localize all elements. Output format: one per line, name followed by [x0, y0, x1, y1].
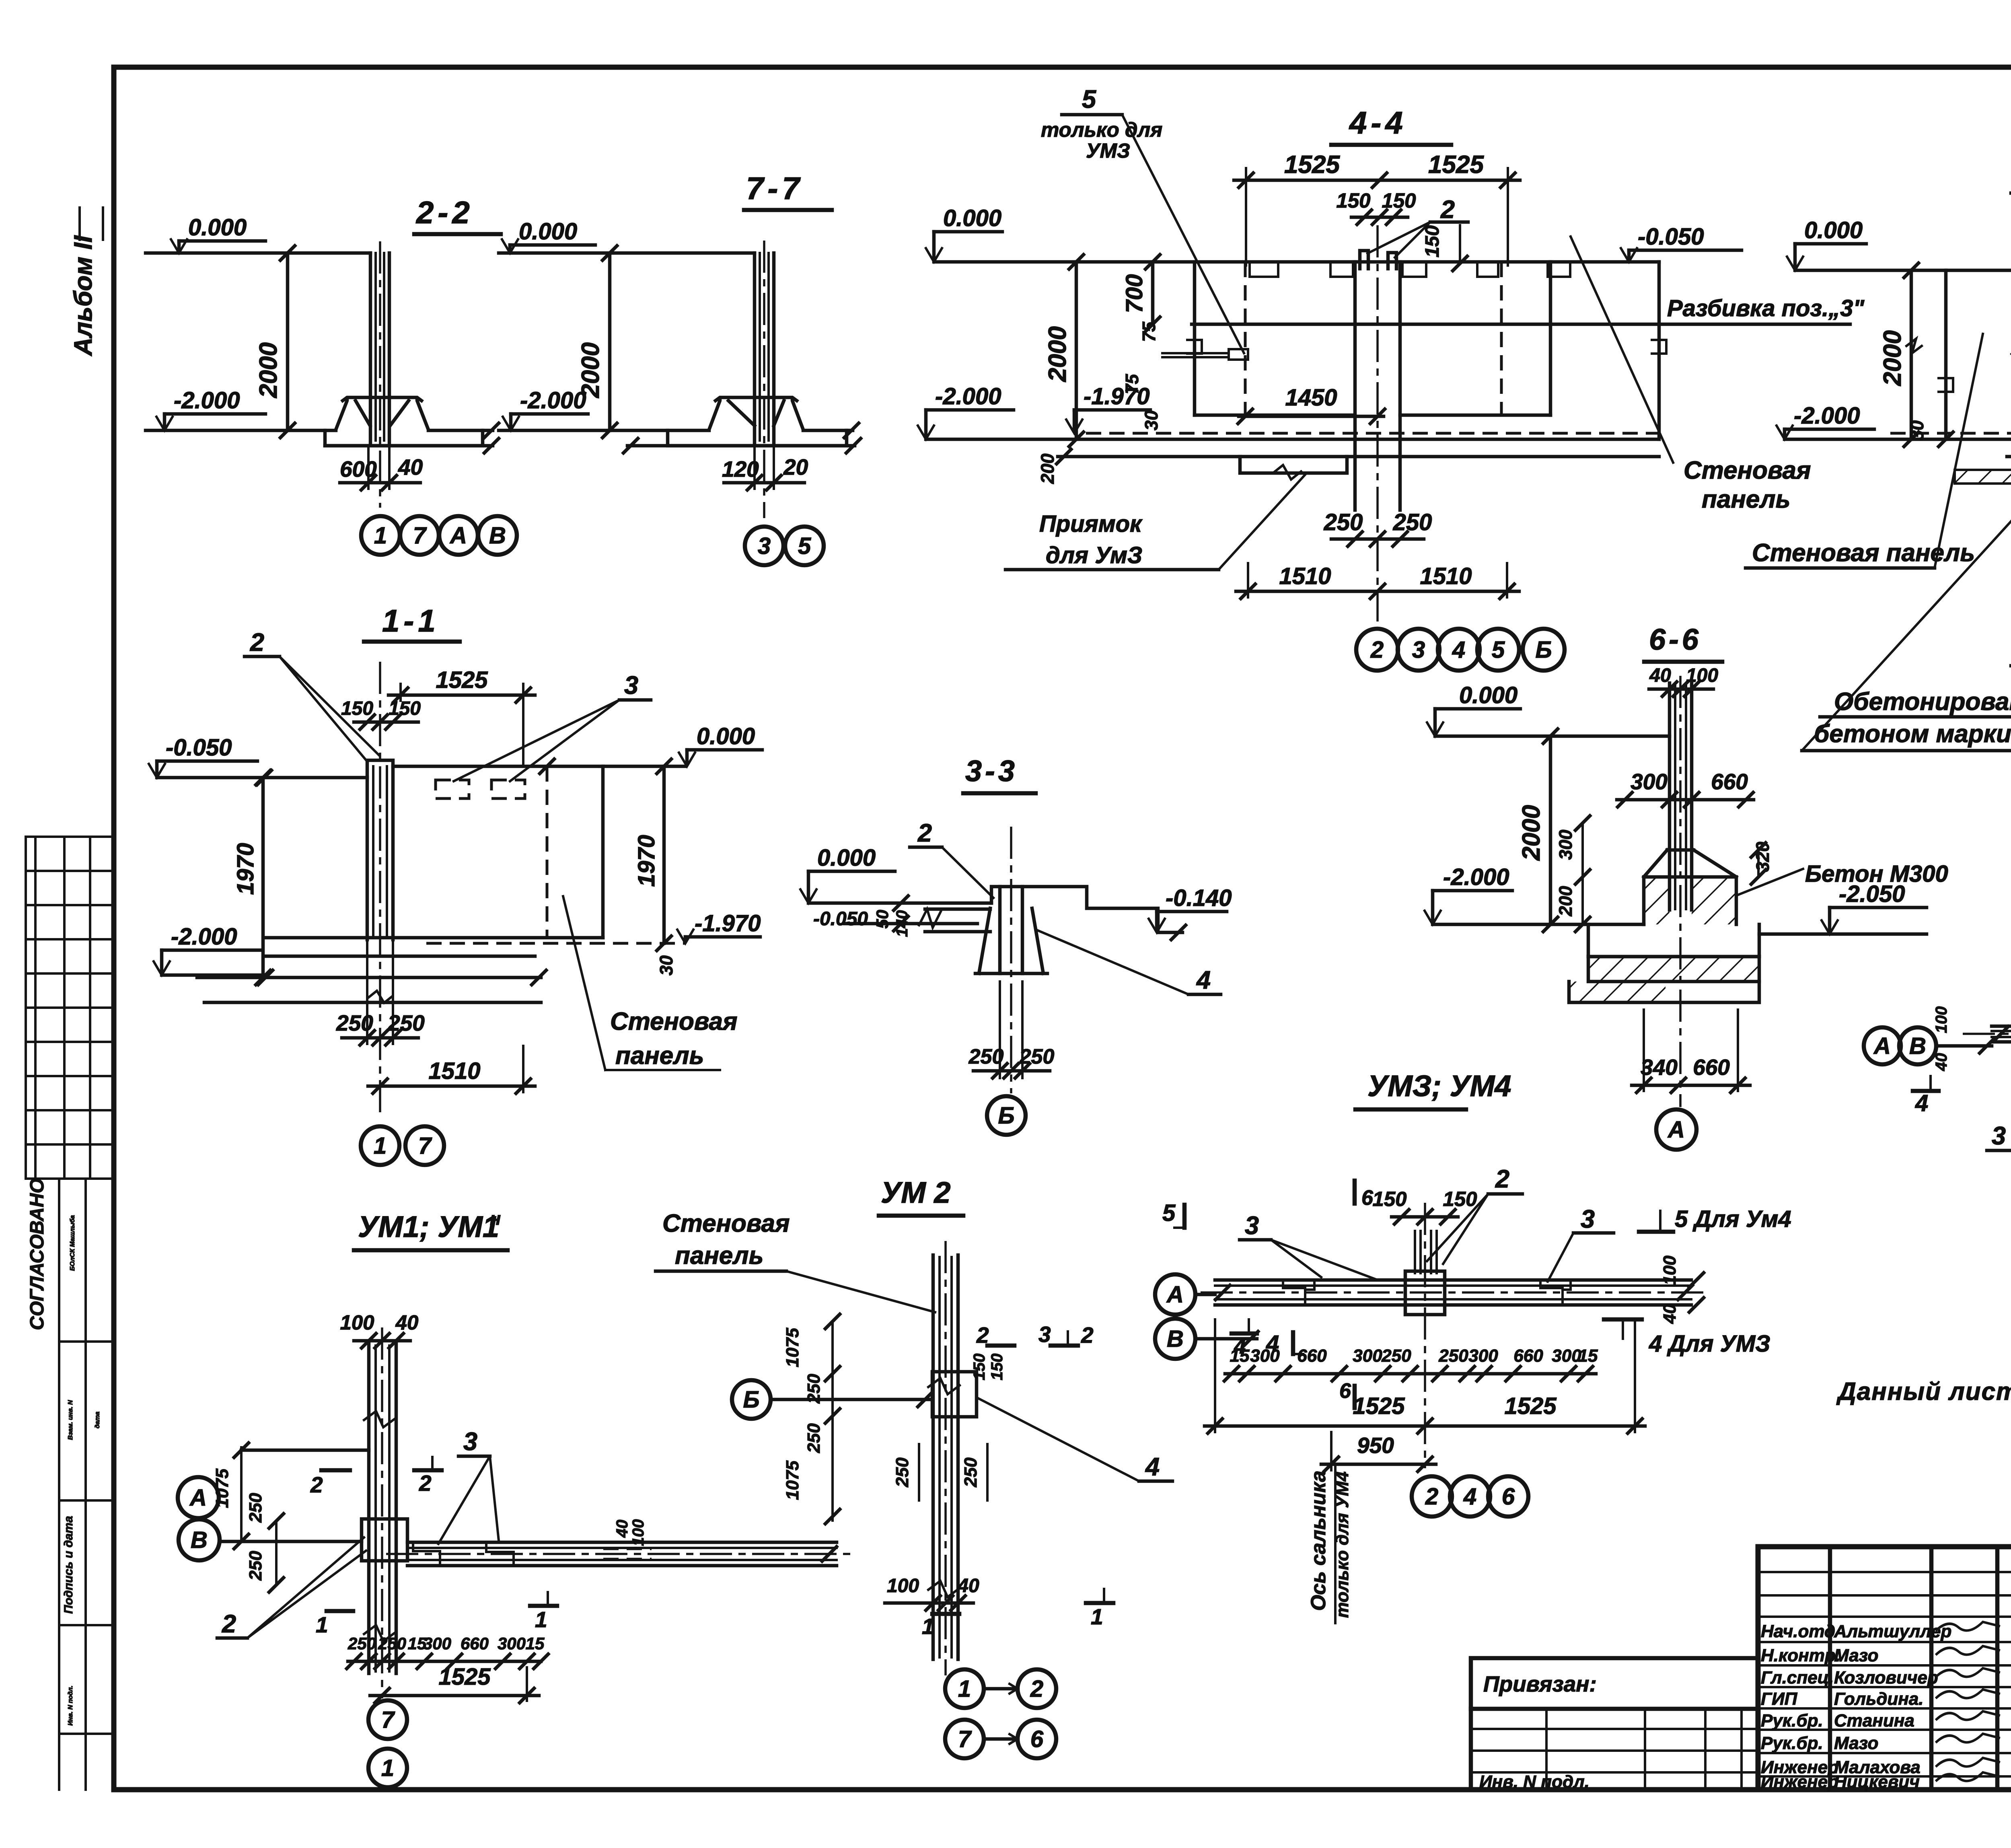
- section 1-1 dim 1510: [368, 1046, 535, 1093]
- svg-text:100: 100: [887, 1575, 919, 1597]
- svg-text:150: 150: [988, 1354, 1006, 1381]
- section 5-5 wall panel label: [1746, 334, 1983, 568]
- section 4-4 panel bottom: [1195, 414, 1550, 417]
- plan UM3 label 2: [1427, 1165, 1522, 1264]
- plan UM2 link bubbles 1 2: [945, 1669, 1056, 1708]
- section 1-1 label 3: [454, 671, 651, 781]
- svg-text:В: В: [1909, 1033, 1926, 1059]
- section 6-6 elevation -2.000: [1425, 864, 1512, 924]
- section 4-4 dim 2000: [1044, 262, 1084, 447]
- svg-text:н: н: [490, 1208, 501, 1229]
- section 7-7 title: [744, 171, 832, 210]
- svg-text:Инв. N подл.: Инв. N подл.: [67, 1685, 74, 1726]
- section 1-1 grid bubbles 1 7: [361, 1126, 444, 1165]
- svg-text:100: 100: [1933, 1006, 1950, 1033]
- svg-text:2000: 2000: [1879, 330, 1906, 386]
- svg-text:5: 5: [1492, 637, 1505, 663]
- svg-text:40: 40: [613, 1520, 631, 1538]
- svg-text:250: 250: [246, 1493, 265, 1523]
- section 5-5 left panel: [1939, 270, 2011, 439]
- section 1-1 dim 1970 left: [232, 770, 270, 985]
- svg-text:Привязан:: Привязан:: [1483, 1671, 1597, 1696]
- section 4-4 right panel: [1501, 262, 1666, 439]
- plan UM3 grid bubbles 2 4 6: [1412, 1476, 1528, 1517]
- svg-text:700: 700: [1121, 274, 1147, 313]
- plan UM5 bubbles A B left: [1864, 1027, 1994, 1064]
- section 4-4 joint walls: [1355, 262, 1400, 510]
- svg-text:40: 40: [1660, 1304, 1680, 1324]
- svg-text:2: 2: [917, 819, 932, 847]
- svg-text:250: 250: [961, 1457, 981, 1488]
- svg-text:140: 140: [893, 910, 911, 937]
- svg-text:75: 75: [1139, 321, 1159, 342]
- section 3-3 step profile: [991, 887, 1186, 940]
- plan UM3 center block: [1405, 1271, 1445, 1315]
- section 4-4 centerline: [1376, 225, 1379, 621]
- svg-text:250: 250: [378, 1634, 406, 1653]
- section 2-2 foundation socket: [336, 397, 428, 430]
- section 6-6 level line: [1433, 923, 1644, 926]
- svg-text:0.000: 0.000: [188, 214, 247, 241]
- svg-text:2: 2: [222, 1610, 236, 1638]
- section 6-6 grid bubble A: [1656, 1109, 1696, 1150]
- svg-text:30: 30: [1907, 420, 1927, 440]
- section 6-6 dim 2000: [1518, 736, 1558, 932]
- plan UM1 bubbles A B: [178, 1477, 362, 1560]
- plan UM1 left dims: [212, 1443, 369, 1592]
- svg-text:250: 250: [348, 1634, 376, 1653]
- section 1-1 elevation -2.000: [154, 924, 263, 975]
- svg-text:7-7: 7-7: [746, 171, 804, 206]
- section 4-4 note 5 only for UM3: [1041, 85, 1244, 353]
- plan UM1 arm centerline: [386, 1553, 855, 1555]
- section 1-1 dim 1525: [389, 667, 535, 766]
- svg-text:-0.140: -0.140: [1166, 885, 1232, 911]
- svg-text:0.000: 0.000: [1459, 682, 1518, 708]
- svg-text:4: 4: [1234, 1335, 1246, 1358]
- section 6-6 dim 300 660: [1617, 769, 1754, 807]
- svg-text:3: 3: [758, 533, 771, 559]
- svg-text:150: 150: [1422, 225, 1443, 257]
- plan UM2 cut marks bottom: [922, 1589, 1113, 1639]
- svg-text:Б: Б: [1535, 637, 1552, 663]
- section 5-5 floor slab: [1785, 420, 2011, 457]
- svg-text:Мазо: Мазо: [1834, 1646, 1878, 1665]
- svg-text:40: 40: [395, 1311, 419, 1334]
- plan UM5 wall strip: [1992, 1026, 2011, 1042]
- svg-text:150: 150: [1336, 189, 1370, 212]
- svg-text:-2.000: -2.000: [935, 383, 1001, 410]
- svg-text:Приямок: Приямок: [1039, 511, 1143, 537]
- svg-text:250: 250: [1393, 509, 1432, 535]
- svg-text:250: 250: [968, 1045, 1004, 1068]
- plan UM1 bottom dim row: [347, 1634, 548, 1669]
- plan UM1 label 2 leader: [217, 1537, 366, 1638]
- svg-text:1: 1: [958, 1676, 971, 1702]
- svg-text:УМ1; УМ1: УМ1; УМ1: [358, 1210, 499, 1243]
- section 4-4 dim 150 vertical: [1422, 225, 1467, 271]
- section 1-1 thirty mark: [656, 955, 677, 975]
- svg-text:3: 3: [463, 1428, 477, 1456]
- svg-text:250: 250: [1438, 1346, 1468, 1366]
- section 4-4 dim 1450: [1238, 385, 1385, 424]
- svg-text:В: В: [1167, 1326, 1184, 1352]
- plan UM3 note 4 for UM3: [1604, 1319, 1770, 1357]
- svg-text:УМ 2: УМ 2: [881, 1176, 950, 1209]
- svg-text:660: 660: [1711, 769, 1748, 794]
- plan UM1 title: [354, 1208, 508, 1250]
- plan UM1 wall strip vertical: [364, 1344, 396, 1673]
- svg-text:Подпись и дата: Подпись и дата: [62, 1516, 75, 1613]
- svg-text:-0.050: -0.050: [166, 735, 232, 761]
- svg-text:-2.000: -2.000: [1794, 403, 1860, 429]
- section 1-1 dim 150 150: [341, 698, 421, 729]
- section 3-3 column boot: [975, 887, 1047, 973]
- svg-text:А: А: [449, 523, 467, 549]
- svg-text:Взам. инв. N: Взам. инв. N: [67, 1400, 74, 1440]
- note about sheets: [1836, 1378, 2011, 1406]
- svg-text:950: 950: [1357, 1433, 1394, 1458]
- title block: [1758, 1547, 2011, 1790]
- svg-text:Альтшуллер: Альтшуллер: [1834, 1622, 1951, 1641]
- plan UM3 bubbles A B: [1155, 1274, 1258, 1359]
- section 3-3 label 4: [1037, 930, 1221, 994]
- section 6-6 dims 300 200 left: [1555, 816, 1590, 932]
- svg-text:250: 250: [387, 1010, 425, 1035]
- section 3-3 label 2: [910, 819, 993, 898]
- plan UM3 rebar pins: [1415, 1231, 1437, 1273]
- svg-text:300: 300: [1555, 829, 1576, 860]
- svg-text:3: 3: [624, 671, 638, 700]
- section 3-3 left floor arm: [893, 909, 990, 937]
- plan UM1 arm joints: [413, 1542, 652, 1566]
- plan UM2 cut marks top: [976, 1322, 1094, 1348]
- plan UM2 bubble B: [732, 1380, 932, 1419]
- plan UM2 left dims: [783, 1314, 840, 1524]
- svg-text:6: 6: [1502, 1484, 1515, 1510]
- section 6-6 dim 320: [1751, 842, 1773, 884]
- svg-text:Гольдина.: Гольдина.: [1834, 1689, 1924, 1709]
- section 3-3 grid bubble B: [987, 1096, 1026, 1135]
- plan UM3 cut marks 6: [1339, 1181, 1374, 1408]
- svg-text:В: В: [191, 1527, 208, 1553]
- section 2-2 dim 2000: [255, 253, 295, 438]
- svg-text:150: 150: [1372, 1187, 1406, 1210]
- plan UM2 dims 150 150: [971, 1354, 1006, 1381]
- plan UM1 cut marks 2: [310, 1457, 442, 1497]
- svg-text:2: 2: [419, 1471, 432, 1496]
- svg-text:Ницкевич: Ницкевич: [1834, 1772, 1920, 1792]
- svg-text:2000: 2000: [1044, 326, 1071, 382]
- svg-text:0.000: 0.000: [519, 218, 577, 245]
- svg-text:1075: 1075: [212, 1469, 232, 1508]
- section 4-4 title: [1331, 105, 1451, 145]
- section 7-7 grid bubbles 3 5: [745, 527, 824, 565]
- svg-text:Стеновая: Стеновая: [662, 1210, 790, 1237]
- section 5-5 elevation 0.000: [1787, 217, 1866, 270]
- svg-text:0.000: 0.000: [697, 723, 755, 749]
- section 7-7 dim 2000: [577, 253, 617, 438]
- svg-text:1: 1: [374, 523, 387, 549]
- svg-text:Н.контр.: Н.контр.: [1761, 1646, 1840, 1665]
- section 4-4 hidden level line: [1086, 432, 1659, 435]
- plan UM3 cut mark 4: [1266, 1331, 1303, 1357]
- section 4-4 dim 700: [1121, 262, 1160, 331]
- svg-text:1510: 1510: [428, 1058, 480, 1084]
- svg-text:20: 20: [783, 455, 808, 479]
- svg-text:Мазо: Мазо: [1834, 1733, 1878, 1753]
- svg-text:4-4: 4-4: [1349, 105, 1407, 140]
- svg-text:150: 150: [341, 698, 373, 719]
- section 4-4 dim 150 150: [1336, 189, 1416, 224]
- section 7-7 ground line: [499, 246, 755, 260]
- svg-text:120: 120: [722, 457, 759, 482]
- svg-text:2-2: 2-2: [415, 195, 474, 230]
- section 4-4 elevation -2.000: [918, 383, 1014, 439]
- svg-text:Нач.отд: Нач.отд: [1761, 1622, 1835, 1641]
- svg-text:1970: 1970: [232, 843, 259, 895]
- svg-text:2: 2: [1440, 196, 1455, 224]
- svg-text:250: 250: [892, 1457, 912, 1488]
- svg-text:250: 250: [336, 1010, 373, 1035]
- svg-text:40: 40: [398, 455, 423, 479]
- plan UM1 center block: [362, 1519, 407, 1561]
- svg-text:Козловичер: Козловичер: [1834, 1668, 1938, 1687]
- section 1-1 floor lines: [157, 759, 686, 785]
- svg-text:150: 150: [1443, 1187, 1477, 1210]
- svg-text:-2.050: -2.050: [1839, 881, 1905, 907]
- svg-text:300: 300: [498, 1634, 526, 1653]
- svg-text:-0.050: -0.050: [813, 908, 868, 930]
- section 7-7 foundation socket: [709, 397, 803, 430]
- plan UM5 centerline: [1963, 1033, 2011, 1035]
- svg-text:Инженер: Инженер: [1761, 1772, 1838, 1792]
- plan UM2 link bubbles 7 6: [945, 1720, 1056, 1758]
- svg-text:2000: 2000: [1518, 805, 1545, 861]
- section 7-7 elevation 0.000: [502, 218, 595, 253]
- section 6-6 elevation 0.000: [1427, 682, 1520, 736]
- section 6-6 beton label: [1738, 861, 1948, 895]
- section 4-4 rebar anchors: [1360, 251, 1396, 269]
- plan UM3 end dims 100 40: [1660, 1255, 1704, 1324]
- section 2-2 elevation -2.000: [156, 387, 265, 430]
- plan UM3 dim 150 150: [1372, 1187, 1477, 1224]
- section 7-7 foundation slab: [499, 423, 861, 453]
- svg-text:панель: панель: [615, 1042, 704, 1070]
- svg-text:бетоном марки 300: бетоном марки 300: [1814, 720, 2011, 748]
- plan UM5 label 3 left: [1987, 1040, 2011, 1150]
- svg-text:4: 4: [1452, 637, 1465, 663]
- svg-text:1970: 1970: [633, 835, 660, 887]
- plan UM3 dim 950: [1321, 1432, 1436, 1471]
- svg-text:100: 100: [340, 1311, 374, 1334]
- section 4-4 left panel: [1187, 262, 1245, 415]
- plan UM1 centerline vertical: [381, 1327, 383, 1698]
- section 5-5 elevation -2.000: [1777, 403, 1874, 439]
- svg-text:4: 4: [1196, 966, 1211, 994]
- section 6-6 elevation -2.050: [1759, 881, 1927, 934]
- inventory strip lower: [59, 1179, 113, 1790]
- plan UM3 label 3 left: [1240, 1212, 1376, 1279]
- svg-text:Альбом II: Альбом II: [69, 235, 97, 356]
- svg-text:100: 100: [629, 1519, 647, 1546]
- section 7-7 column centerline: [763, 241, 765, 518]
- svg-text:0.000: 0.000: [943, 205, 1001, 231]
- section 1-1 embedded plates dashed: [436, 780, 525, 798]
- svg-text:300: 300: [1250, 1346, 1280, 1366]
- svg-text:15: 15: [526, 1634, 545, 1653]
- section 4-4 dim 250 250: [1324, 509, 1432, 546]
- svg-text:1-1: 1-1: [382, 603, 440, 638]
- svg-text:660: 660: [1513, 1346, 1543, 1366]
- svg-text:Рук.бр.: Рук.бр.: [1761, 1733, 1823, 1753]
- section 4-4 top notches: [1250, 262, 1570, 277]
- svg-text:4: 4: [1145, 1453, 1160, 1481]
- section 6-6 column: [1670, 683, 1692, 910]
- svg-text:2: 2: [1081, 1323, 1094, 1348]
- svg-text:панель: панель: [675, 1242, 763, 1270]
- svg-text:2: 2: [976, 1323, 989, 1348]
- svg-text:2: 2: [1370, 637, 1384, 663]
- plan UM3 cut mark 4 left: [1232, 1319, 1257, 1358]
- privyazan sub-block: [1471, 1658, 1758, 1792]
- svg-text:15: 15: [1578, 1346, 1598, 1366]
- plan UM5 dims 100 40: [1933, 1006, 1950, 1072]
- plan UM3 centerline vertical: [1424, 1203, 1426, 1468]
- svg-text:40: 40: [1933, 1053, 1950, 1072]
- section 6-6 dim 340 660: [1632, 1010, 1750, 1093]
- section 1-1 title: [364, 603, 460, 642]
- svg-text:5 Для Ум4: 5 Для Ум4: [1675, 1206, 1791, 1232]
- svg-text:340: 340: [1641, 1055, 1678, 1080]
- svg-text:только для: только для: [1041, 118, 1162, 141]
- plan UM3 note 5 for UM4: [1639, 1206, 1791, 1232]
- svg-text:5: 5: [1162, 1200, 1176, 1226]
- plan UM2 center block: [932, 1372, 977, 1417]
- section 4-4 elevation -0.050: [1621, 224, 1742, 262]
- svg-text:3: 3: [1412, 637, 1425, 663]
- svg-text:4: 4: [1463, 1484, 1476, 1510]
- svg-text:1: 1: [316, 1612, 328, 1637]
- section 6-6 centerline: [1679, 676, 1682, 1107]
- svg-text:2: 2: [1425, 1484, 1438, 1510]
- svg-text:Гл.спец.: Гл.спец.: [1761, 1668, 1834, 1687]
- plan UM3 axis note rotated: [1307, 1464, 1352, 1623]
- section 4-4 elevation 0.000: [926, 205, 1002, 262]
- svg-text:1525: 1525: [438, 1664, 491, 1690]
- svg-text:100: 100: [1660, 1255, 1680, 1285]
- section 3-3 centerline: [1010, 827, 1012, 1093]
- section 1-1 dim 1970 right: [633, 759, 671, 951]
- svg-text:300: 300: [423, 1634, 451, 1653]
- svg-text:1450: 1450: [1285, 385, 1337, 411]
- svg-text:660: 660: [1297, 1346, 1327, 1366]
- section 1-1 bottom slab: [197, 938, 686, 1003]
- svg-text:4: 4: [1915, 1090, 1928, 1116]
- svg-text:-2.000: -2.000: [174, 387, 240, 414]
- svg-text:3: 3: [1581, 1205, 1595, 1233]
- svg-text:-1.970: -1.970: [695, 910, 761, 936]
- svg-text:3: 3: [1992, 1122, 2006, 1150]
- svg-text:-2.000: -2.000: [520, 387, 586, 414]
- svg-text:4 Для УМЗ: 4 Для УМЗ: [1649, 1331, 1770, 1357]
- svg-text:Данный лист см. совместно с л: Данный лист см. совместно с листами АС-8…: [1836, 1378, 2011, 1406]
- svg-text:7: 7: [381, 1707, 395, 1733]
- svg-text:-1.970: -1.970: [1084, 383, 1149, 410]
- svg-text:Стеновая: Стеновая: [610, 1008, 738, 1035]
- section 6-6 dim 40 100: [1649, 665, 1718, 696]
- section 5-5 underlay strip: [1955, 470, 2011, 484]
- svg-text:6: 6: [1361, 1186, 1374, 1210]
- section 4-4 dim 1510 1510: [1236, 563, 1519, 599]
- svg-text:250: 250: [1381, 1346, 1411, 1366]
- section 4-4 elevation -1.970: [1066, 383, 1162, 433]
- section 5-5 top lines: [1795, 263, 2011, 278]
- section 4-4 75 75 dims: [1122, 321, 1159, 394]
- svg-text:6: 6: [1339, 1379, 1351, 1403]
- plan UM1 dim 1525: [370, 1664, 539, 1703]
- svg-text:3: 3: [1038, 1322, 1051, 1347]
- svg-text:2: 2: [310, 1472, 323, 1497]
- svg-text:150: 150: [1382, 189, 1416, 212]
- section 6-6 ground line: [1435, 729, 1670, 743]
- section 1-1 centerline: [379, 662, 381, 1116]
- svg-text:Разбивка поз.„3": Разбивка поз.„3": [1667, 295, 1865, 321]
- section 4-4 anchor bolt detail: [1162, 349, 1248, 360]
- svg-text:БОлСК Машлыба: БОлСК Машлыба: [69, 1215, 76, 1271]
- section 4-4 wall panel label: [1571, 237, 1811, 513]
- svg-text:Обетонировать: Обетонировать: [1834, 688, 2011, 716]
- svg-text:2: 2: [1030, 1676, 1043, 1702]
- svg-text:2000: 2000: [255, 342, 282, 398]
- section 2-2 wall panel column: [370, 253, 389, 442]
- svg-text:1: 1: [535, 1607, 547, 1632]
- plan UM3 UM4 title: [1355, 1069, 1511, 1109]
- section 4-4 pit: [1240, 457, 1347, 479]
- svg-text:Инв. N подл.: Инв. N подл.: [1479, 1772, 1589, 1792]
- svg-text:1510: 1510: [1420, 563, 1472, 589]
- section 2-2 title: [414, 195, 501, 234]
- section 1-1 label 2: [245, 628, 379, 761]
- section 1-1 wall panel label: [563, 896, 738, 1070]
- section 3-3 elevation -0.140: [1149, 885, 1232, 932]
- plan UM3 label 3 right: [1548, 1205, 1614, 1282]
- section 4-4 dim 1525 1525: [1234, 151, 1520, 265]
- svg-text:2: 2: [250, 628, 264, 656]
- svg-text:250: 250: [1324, 509, 1363, 535]
- plan UM1 label 3: [438, 1428, 499, 1544]
- svg-text:Станина: Станина: [1834, 1711, 1914, 1731]
- svg-text:6-6: 6-6: [1649, 623, 1702, 656]
- plan UM2 label 4: [977, 1398, 1172, 1481]
- plan UM3 bottom dim row: [1224, 1346, 1598, 1381]
- svg-text:Ось сальника: Ось сальника: [1307, 1471, 1330, 1611]
- svg-text:1075: 1075: [783, 1461, 802, 1500]
- svg-text:200: 200: [1037, 453, 1058, 484]
- svg-text:СОГЛАСОВАНО: СОГЛАСОВАНО: [27, 1178, 48, 1330]
- svg-text:1075: 1075: [783, 1328, 802, 1367]
- approval stamp text: [27, 1178, 76, 1330]
- svg-text:7: 7: [413, 523, 427, 549]
- section 3-3 title: [963, 754, 1036, 793]
- svg-text:250: 250: [804, 1374, 824, 1404]
- plan UM2 wall strip vertical: [928, 1255, 960, 1659]
- wall panel label near UM2: [656, 1210, 935, 1312]
- svg-text:1525: 1525: [1284, 151, 1340, 179]
- svg-text:панель: панель: [1702, 486, 1790, 513]
- svg-text:1: 1: [922, 1614, 934, 1639]
- section 3-3 minus 0.050: [813, 908, 892, 930]
